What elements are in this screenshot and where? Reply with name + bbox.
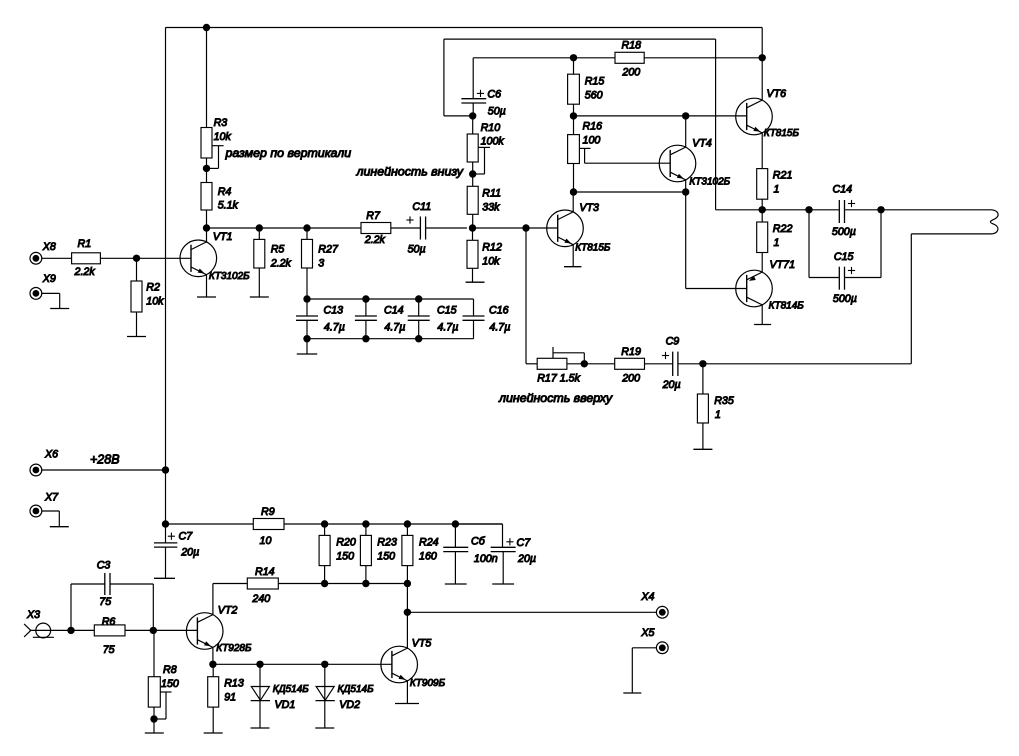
svg-text:VT4: VT4 <box>692 138 712 150</box>
wire R16 wiper to VT4 base <box>579 148 670 163</box>
label VT3 type <box>575 242 611 253</box>
node R15 top <box>570 54 577 61</box>
resistor R23 <box>360 524 371 584</box>
ground under VT71 <box>754 324 771 326</box>
node bank bottom C14 <box>362 335 369 342</box>
svg-text:R8: R8 <box>163 664 177 676</box>
connector X3 <box>24 623 54 638</box>
svg-text:VT5: VT5 <box>412 638 432 650</box>
wire bank ground stem <box>306 339 308 354</box>
svg-text:75: 75 <box>99 596 111 608</box>
polarity plus C9 <box>662 352 669 359</box>
svg-text:VT1: VT1 <box>213 231 233 243</box>
label R22 <box>773 223 793 235</box>
svg-text:R10: R10 <box>481 122 501 134</box>
svg-text:X3: X3 <box>26 609 40 621</box>
svg-text:160: 160 <box>419 550 437 562</box>
svg-text:КТ814Б: КТ814Б <box>769 301 805 312</box>
svg-text:X4: X4 <box>640 591 654 603</box>
trimmer R17 <box>537 358 567 369</box>
label R15 value <box>585 89 603 101</box>
svg-text:200: 200 <box>621 67 640 79</box>
wire VT3 emitter <box>572 245 574 267</box>
wire C3 right <box>110 584 154 630</box>
svg-text:2.2k: 2.2k <box>364 234 386 246</box>
wire emitter rail <box>213 663 392 665</box>
wire R22 top <box>761 210 763 222</box>
label C7 value <box>180 547 199 559</box>
svg-text:X9: X9 <box>42 273 56 285</box>
label R11 <box>482 187 501 199</box>
node top bus / R3 <box>203 24 210 31</box>
svg-text:200: 200 <box>621 372 640 384</box>
wire R16 top stem <box>573 116 575 135</box>
label C15 bank value <box>437 322 458 334</box>
wire to X4 <box>407 611 656 613</box>
node R1/R2 <box>133 255 140 262</box>
label X4 <box>640 591 654 603</box>
svg-text:линейность вверху: линейность вверху <box>498 391 613 405</box>
node R18/VT6 collector <box>759 54 766 61</box>
terminal X7 <box>30 505 42 517</box>
svg-text:R17 1.5k: R17 1.5k <box>537 372 580 384</box>
node R16/VT3 collector <box>570 188 577 195</box>
ground under VT5 <box>395 703 419 705</box>
wire R12 bottom <box>472 268 474 282</box>
resistor R7 <box>361 223 391 234</box>
wire C6 net to R18 <box>473 57 615 59</box>
wire X7 to ground <box>42 511 60 527</box>
node bank top C13 <box>303 295 310 302</box>
node bank bottom C15 <box>415 335 422 342</box>
label VT2 type <box>216 643 252 654</box>
ground under VD1 <box>251 727 270 729</box>
svg-text:4.7µ: 4.7µ <box>437 322 458 334</box>
label R13 value <box>224 692 236 704</box>
ground under R5 <box>250 296 269 298</box>
cable break squiggle <box>990 210 998 234</box>
svg-text:X8: X8 <box>42 241 56 253</box>
capacitor C11 <box>420 217 425 240</box>
svg-text:500µ: 500µ <box>832 226 856 238</box>
polarity plus C15 <box>848 267 855 274</box>
wire R27 bottom <box>306 268 308 299</box>
wire VT1 collector <box>206 228 208 242</box>
label R11 value <box>482 201 500 213</box>
svg-text:R1: R1 <box>78 238 92 250</box>
label C13 <box>324 305 344 317</box>
wire R18 to VT6 node <box>644 57 762 59</box>
label VT6 type <box>764 128 800 139</box>
node C6/R10 <box>469 112 476 119</box>
svg-text:C13: C13 <box>324 305 344 317</box>
trimmer R16 <box>568 135 580 164</box>
label VT71 type <box>769 301 805 312</box>
label C16 <box>489 305 509 317</box>
label C16 value <box>489 322 510 334</box>
label R10 value <box>481 136 505 148</box>
label R6 <box>102 616 116 628</box>
wire VT6 collector <box>761 58 763 100</box>
wire C9 to R35 node <box>678 363 703 365</box>
wire bootstrap drop x=715 <box>716 39 763 210</box>
label R8 value <box>161 678 179 690</box>
svg-text:100n: 100n <box>474 553 498 565</box>
ground under C6b <box>445 583 467 585</box>
wire R8 wiper <box>154 692 172 719</box>
wire X3 to R6 <box>71 629 94 631</box>
label R9 value <box>260 535 272 547</box>
label R21 value <box>774 184 780 196</box>
svg-text:R11: R11 <box>482 187 501 199</box>
wire R3 wiper <box>207 146 224 169</box>
wire R17 wiper <box>553 347 584 364</box>
capacitor C15 <box>839 267 844 290</box>
label R19 value <box>621 372 640 384</box>
ground under VT1 <box>197 296 216 298</box>
wire R13 stem <box>212 664 214 676</box>
wire R16 bottom <box>573 164 575 193</box>
resistor R9 <box>253 519 284 530</box>
node brail R23 <box>362 580 369 587</box>
annotation lineynost vnizu <box>356 165 464 179</box>
svg-text:4.7µ: 4.7µ <box>324 322 345 334</box>
resistor R13 <box>208 677 219 707</box>
wire VT2 emitter <box>212 647 214 664</box>
svg-text:R2: R2 <box>146 282 160 294</box>
resistor R12 <box>467 240 478 268</box>
label R16 <box>583 121 603 133</box>
capacitor C7b <box>455 524 515 584</box>
wire C3 branch <box>71 584 105 630</box>
label C7b <box>517 537 532 549</box>
svg-text:2.2k: 2.2k <box>74 266 96 278</box>
svg-text:X5: X5 <box>640 627 654 639</box>
svg-text:X7: X7 <box>44 492 59 504</box>
label R14 value <box>251 593 270 605</box>
label R18 value <box>621 67 640 79</box>
svg-text:КТ909Б: КТ909Б <box>410 678 446 689</box>
svg-text:КТ815Б: КТ815Б <box>575 242 611 253</box>
node R5 <box>256 224 263 231</box>
wire VT5 emitter <box>406 681 408 704</box>
node bank top C15 <box>415 295 422 302</box>
polarity plus C14 <box>848 200 855 207</box>
node brail R20 <box>321 580 328 587</box>
svg-text:R16: R16 <box>583 121 603 133</box>
node VT2 emitter rail <box>209 661 216 668</box>
node VT4 collector <box>682 112 689 119</box>
ground under cap bank <box>297 353 317 355</box>
ground under R2 <box>127 336 146 338</box>
wire bus to R9 <box>166 523 254 525</box>
wire R6 to node <box>125 629 153 631</box>
annotation razmer po vertikali <box>225 146 352 160</box>
svg-text:R23: R23 <box>377 536 397 548</box>
svg-text:R21: R21 <box>773 170 793 182</box>
capacitor C7 <box>154 524 177 578</box>
capacitor C13 <box>296 299 318 339</box>
ground under C7 <box>154 577 175 579</box>
label R8 <box>163 664 177 676</box>
wire VT71 collector <box>761 305 763 325</box>
label R13 <box>224 678 244 690</box>
wire bottom rail <box>278 583 407 585</box>
node brail R24 <box>404 580 411 587</box>
node rail R23 <box>362 520 369 527</box>
svg-text:C14: C14 <box>384 305 404 317</box>
wire VT4 emitter <box>685 180 687 192</box>
wire VT4 emitter to VT71 base <box>686 192 747 289</box>
diode VD2 <box>316 664 335 728</box>
svg-text:150: 150 <box>377 550 395 562</box>
terminal X8 <box>30 252 42 264</box>
svg-text:560: 560 <box>585 89 603 101</box>
wire bootstrap line B <box>444 39 716 116</box>
label C9 value <box>662 379 681 391</box>
resistor R1 <box>72 253 101 264</box>
capacitor C16 <box>463 299 485 339</box>
wire R1 to VT1 base <box>100 257 191 259</box>
label R1 <box>78 238 92 250</box>
capacitor C3 <box>105 573 110 595</box>
svg-text:C6: C6 <box>487 89 501 101</box>
label C14 value <box>832 226 856 238</box>
node R17 branch <box>522 224 529 231</box>
svg-text:КД514Б: КД514Б <box>338 684 375 695</box>
wire R11 bottom <box>472 214 474 228</box>
resistor R27 <box>302 239 313 268</box>
node R3/R4 <box>203 165 210 172</box>
ground at X5 <box>623 692 641 694</box>
svg-text:C7: C7 <box>517 537 532 549</box>
svg-text:R19: R19 <box>621 346 641 358</box>
svg-text:КТ3102Б: КТ3102Б <box>209 271 250 282</box>
ground at X7 <box>50 526 69 528</box>
resistor R15 <box>568 74 580 104</box>
label C3 <box>97 560 111 572</box>
svg-text:50µ: 50µ <box>488 106 506 118</box>
node C14/C15 left <box>805 206 812 213</box>
label X8 <box>42 241 56 253</box>
wire R15 top stem <box>573 58 575 74</box>
svg-text:R13: R13 <box>224 678 244 690</box>
capacitor C15 bank <box>408 299 430 339</box>
ground under R12 <box>466 281 485 283</box>
svg-text:VD2: VD2 <box>339 699 360 711</box>
node R27 <box>303 224 310 231</box>
transistor VT3 <box>547 210 584 247</box>
node VT4 emitter <box>682 188 689 195</box>
wire R10 top stem <box>472 116 474 134</box>
node X4 line <box>404 609 411 616</box>
label VD1 <box>275 699 296 711</box>
svg-text:R5: R5 <box>271 244 285 256</box>
label R2 value <box>146 296 164 308</box>
wire R15 bottom <box>573 104 575 116</box>
transistor VT4 <box>659 145 696 182</box>
label R23 <box>377 536 397 548</box>
label VT1 type <box>209 271 250 282</box>
label C6 value <box>488 106 506 118</box>
svg-text:R24: R24 <box>419 536 439 548</box>
wire R22 to VT71 emitter <box>761 253 763 273</box>
wire VT6 base line <box>574 115 747 117</box>
wire feedback line <box>703 363 911 365</box>
ground at X9 <box>50 308 69 310</box>
label C14 bank <box>384 305 404 317</box>
wire VT4 collector <box>685 116 687 147</box>
label VT4 type <box>689 176 730 187</box>
ground under R8 <box>145 732 164 734</box>
svg-text:КД514Б: КД514Б <box>273 684 310 695</box>
svg-text:10k: 10k <box>214 131 232 143</box>
wire cap bank bottom rail <box>307 338 474 340</box>
label X7 <box>44 492 59 504</box>
label R10 <box>481 122 501 134</box>
node R17 wiper junction <box>581 360 588 367</box>
label R16 value <box>583 134 601 146</box>
label C7 <box>179 531 194 543</box>
svg-text:R35: R35 <box>714 395 734 407</box>
label C9 <box>666 335 680 347</box>
label R9 <box>261 506 275 518</box>
wire output line <box>762 209 839 211</box>
resistor R24 <box>402 524 413 584</box>
label R3 value <box>214 131 232 143</box>
label C6 <box>487 89 501 101</box>
wire R7 to C11 <box>391 227 421 229</box>
wire R10 to R11 <box>472 162 474 186</box>
label R2 <box>146 282 160 294</box>
label C11 value <box>408 243 426 255</box>
ground under R13 <box>204 732 223 734</box>
svg-text:10k: 10k <box>482 255 500 267</box>
svg-text:20µ: 20µ <box>662 379 681 391</box>
label C11 <box>412 201 431 213</box>
wire R35 bottom <box>702 423 704 449</box>
label VT1 <box>213 231 233 243</box>
wire R13 bottom <box>212 707 214 733</box>
svg-text:R3: R3 <box>214 117 228 129</box>
capacitor C6 <box>461 99 486 103</box>
wire C15 right loop <box>845 210 881 278</box>
svg-text:C7: C7 <box>179 531 194 543</box>
ground under VD2 <box>315 727 334 729</box>
label C7b value <box>517 553 536 565</box>
annotation lineynost vverhu <box>498 391 613 405</box>
polarity plus C6 <box>477 90 484 97</box>
label C13 value <box>324 322 345 334</box>
capacitor C14 bank <box>355 299 377 339</box>
label R6 value <box>103 644 115 656</box>
svg-text:VT71: VT71 <box>770 259 796 271</box>
svg-text:10: 10 <box>260 535 272 547</box>
label X9 <box>42 273 56 285</box>
svg-text:75: 75 <box>103 644 115 656</box>
wire R27 stem <box>306 228 308 239</box>
transistor VT6 <box>736 98 773 135</box>
terminal X9 <box>30 288 42 300</box>
capacitor C6b <box>443 524 468 584</box>
label VT3 <box>579 202 599 214</box>
wire VT3 collector <box>572 192 574 212</box>
label C6b <box>471 536 486 548</box>
wire branch down to R17 <box>526 228 537 364</box>
wire X9 to ground <box>42 293 60 308</box>
wire R8 top stem <box>153 630 155 676</box>
wire R21 bottom <box>761 199 763 210</box>
svg-text:+28В: +28В <box>90 453 120 467</box>
resistor R6 <box>94 625 125 636</box>
trimmer R3 <box>201 128 212 159</box>
label R35 <box>714 395 734 407</box>
label R1 value <box>74 266 96 278</box>
resistor R19 <box>615 358 645 369</box>
svg-text:C9: C9 <box>666 335 680 347</box>
transistor VT5 <box>381 646 418 683</box>
wire R8 bottom <box>153 707 155 733</box>
wire C14 right to squiggle <box>845 209 991 211</box>
svg-text:1: 1 <box>774 184 780 196</box>
wire C6 bottom <box>472 104 474 116</box>
svg-text:КТ3102Б: КТ3102Б <box>689 176 730 187</box>
resistor R11 <box>467 186 478 214</box>
svg-text:R22: R22 <box>773 223 793 235</box>
transistor VT2 <box>186 613 223 650</box>
resistor R5 <box>254 239 265 268</box>
svg-text:2.2k: 2.2k <box>270 258 292 270</box>
wire C11 to node <box>426 227 467 229</box>
node VT1 collector / main line <box>203 224 210 231</box>
label VD2 <box>339 699 360 711</box>
wire X6 to bus <box>42 469 166 471</box>
node R21/R22 output <box>759 206 766 213</box>
label R21 <box>773 170 793 182</box>
svg-text:240: 240 <box>251 593 270 605</box>
svg-text:100k: 100k <box>481 136 505 148</box>
wire R19 to C9 <box>645 363 673 365</box>
wire R10 wiper <box>473 147 490 174</box>
wire C6 top corner <box>472 58 474 98</box>
wire R4 to VT1 collector node <box>206 210 208 228</box>
wire R14 to VT2 collector <box>213 584 247 616</box>
resistor R22 <box>757 222 768 253</box>
wire C15 left loop <box>809 210 839 278</box>
label R24 value <box>419 550 437 562</box>
svg-text:20µ: 20µ <box>180 547 199 559</box>
resistor R35 <box>697 394 708 423</box>
polarity plus C11 <box>406 216 413 223</box>
label VT4 <box>692 138 712 150</box>
transistor VT1 <box>180 240 217 277</box>
label R14 <box>255 566 275 578</box>
svg-text:размер по вертикали: размер по вертикали <box>225 146 352 160</box>
label C14 bank value <box>384 322 405 334</box>
label R4 <box>218 186 232 198</box>
polarity plus C7b <box>506 538 513 545</box>
label C15 <box>834 251 854 263</box>
svg-text:R9: R9 <box>261 506 275 518</box>
node R8 wiper <box>150 715 157 722</box>
wire main line left <box>207 227 362 229</box>
label R5 <box>271 244 285 256</box>
node R6/R8/VT2 base <box>150 627 157 634</box>
svg-text:3: 3 <box>318 258 324 270</box>
svg-text:R14: R14 <box>255 566 275 578</box>
svg-text:КТ815Б: КТ815Б <box>764 128 800 139</box>
svg-text:R27: R27 <box>318 244 339 256</box>
